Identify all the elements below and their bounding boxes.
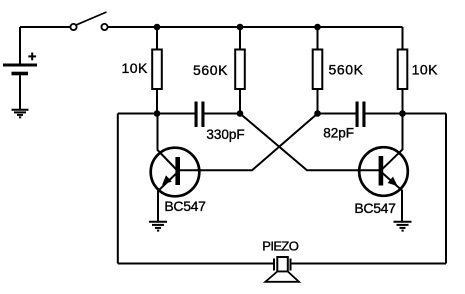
ground (Q1 emitter) bbox=[149, 222, 167, 231]
svg-text:BC547: BC547 bbox=[164, 198, 206, 214]
resistor R1 10K bbox=[152, 27, 162, 114]
wire switch to V+ rail bbox=[108, 26, 403, 28]
wire cross-couple C1 junction to Q2 base bbox=[240, 114, 380, 171]
svg-text:560K: 560K bbox=[328, 62, 363, 78]
svg-text:BC547: BC547 bbox=[354, 200, 396, 216]
capacitor C1 330pF bbox=[195, 102, 241, 128]
capacitor C2 82pF bbox=[356, 102, 403, 128]
node V+ at R2 bbox=[237, 24, 244, 31]
wire piezo to bottom right bbox=[292, 263, 447, 265]
wire cross-couple C2 junction to Q1 base bbox=[178, 114, 318, 171]
switch S1 bbox=[70, 12, 107, 30]
svg-text:560K: 560K bbox=[193, 62, 228, 78]
wire 560K-right junction row bbox=[318, 113, 356, 115]
wire battery to switch bbox=[20, 26, 70, 28]
transistor Q1 bbox=[151, 114, 201, 222]
svg-text:10K: 10K bbox=[121, 60, 148, 76]
battery B1 bbox=[3, 27, 37, 109]
svg-text:82pF: 82pF bbox=[323, 126, 354, 141]
resistor R2 560K bbox=[235, 27, 245, 114]
node Q1 collector bbox=[154, 110, 161, 117]
transistor Q2 bbox=[358, 114, 408, 222]
node V+ at R1 bbox=[154, 24, 161, 31]
resistor R3 560K bbox=[313, 27, 323, 114]
ground (battery) bbox=[12, 110, 29, 118]
wire right collector to right rail bbox=[403, 113, 447, 115]
node V+ at R3 bbox=[314, 24, 321, 31]
wire left side vertical bbox=[117, 114, 119, 264]
node Q1 base / C2 bbox=[314, 110, 321, 117]
svg-text:PIEZO: PIEZO bbox=[262, 239, 298, 254]
node Q2 base / C1 bbox=[237, 110, 244, 117]
wire collector row left bbox=[118, 113, 195, 115]
node Q2 collector bbox=[399, 110, 406, 117]
svg-text:330pF: 330pF bbox=[206, 127, 244, 142]
svg-text:10K: 10K bbox=[412, 62, 439, 78]
piezo SP1 bbox=[265, 257, 299, 282]
ground (Q2 emitter) bbox=[394, 222, 412, 231]
resistor R4 10K bbox=[398, 27, 408, 114]
wire bottom left to piezo bbox=[118, 263, 273, 265]
wire right side vertical bbox=[445, 114, 447, 264]
